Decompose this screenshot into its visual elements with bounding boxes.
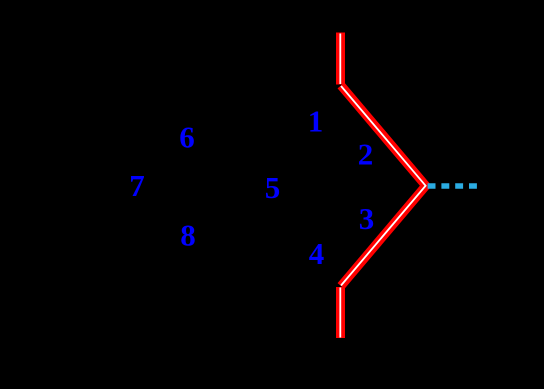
svg-text:2: 2 (358, 137, 374, 172)
svg-text:8: 8 (180, 218, 196, 253)
svg-text:3: 3 (359, 201, 375, 236)
svg-text:6: 6 (179, 120, 195, 155)
svg-text:1: 1 (308, 104, 324, 139)
svg-text:4: 4 (309, 236, 325, 271)
svg-text:5: 5 (265, 170, 281, 205)
svg-text:7: 7 (129, 168, 145, 203)
